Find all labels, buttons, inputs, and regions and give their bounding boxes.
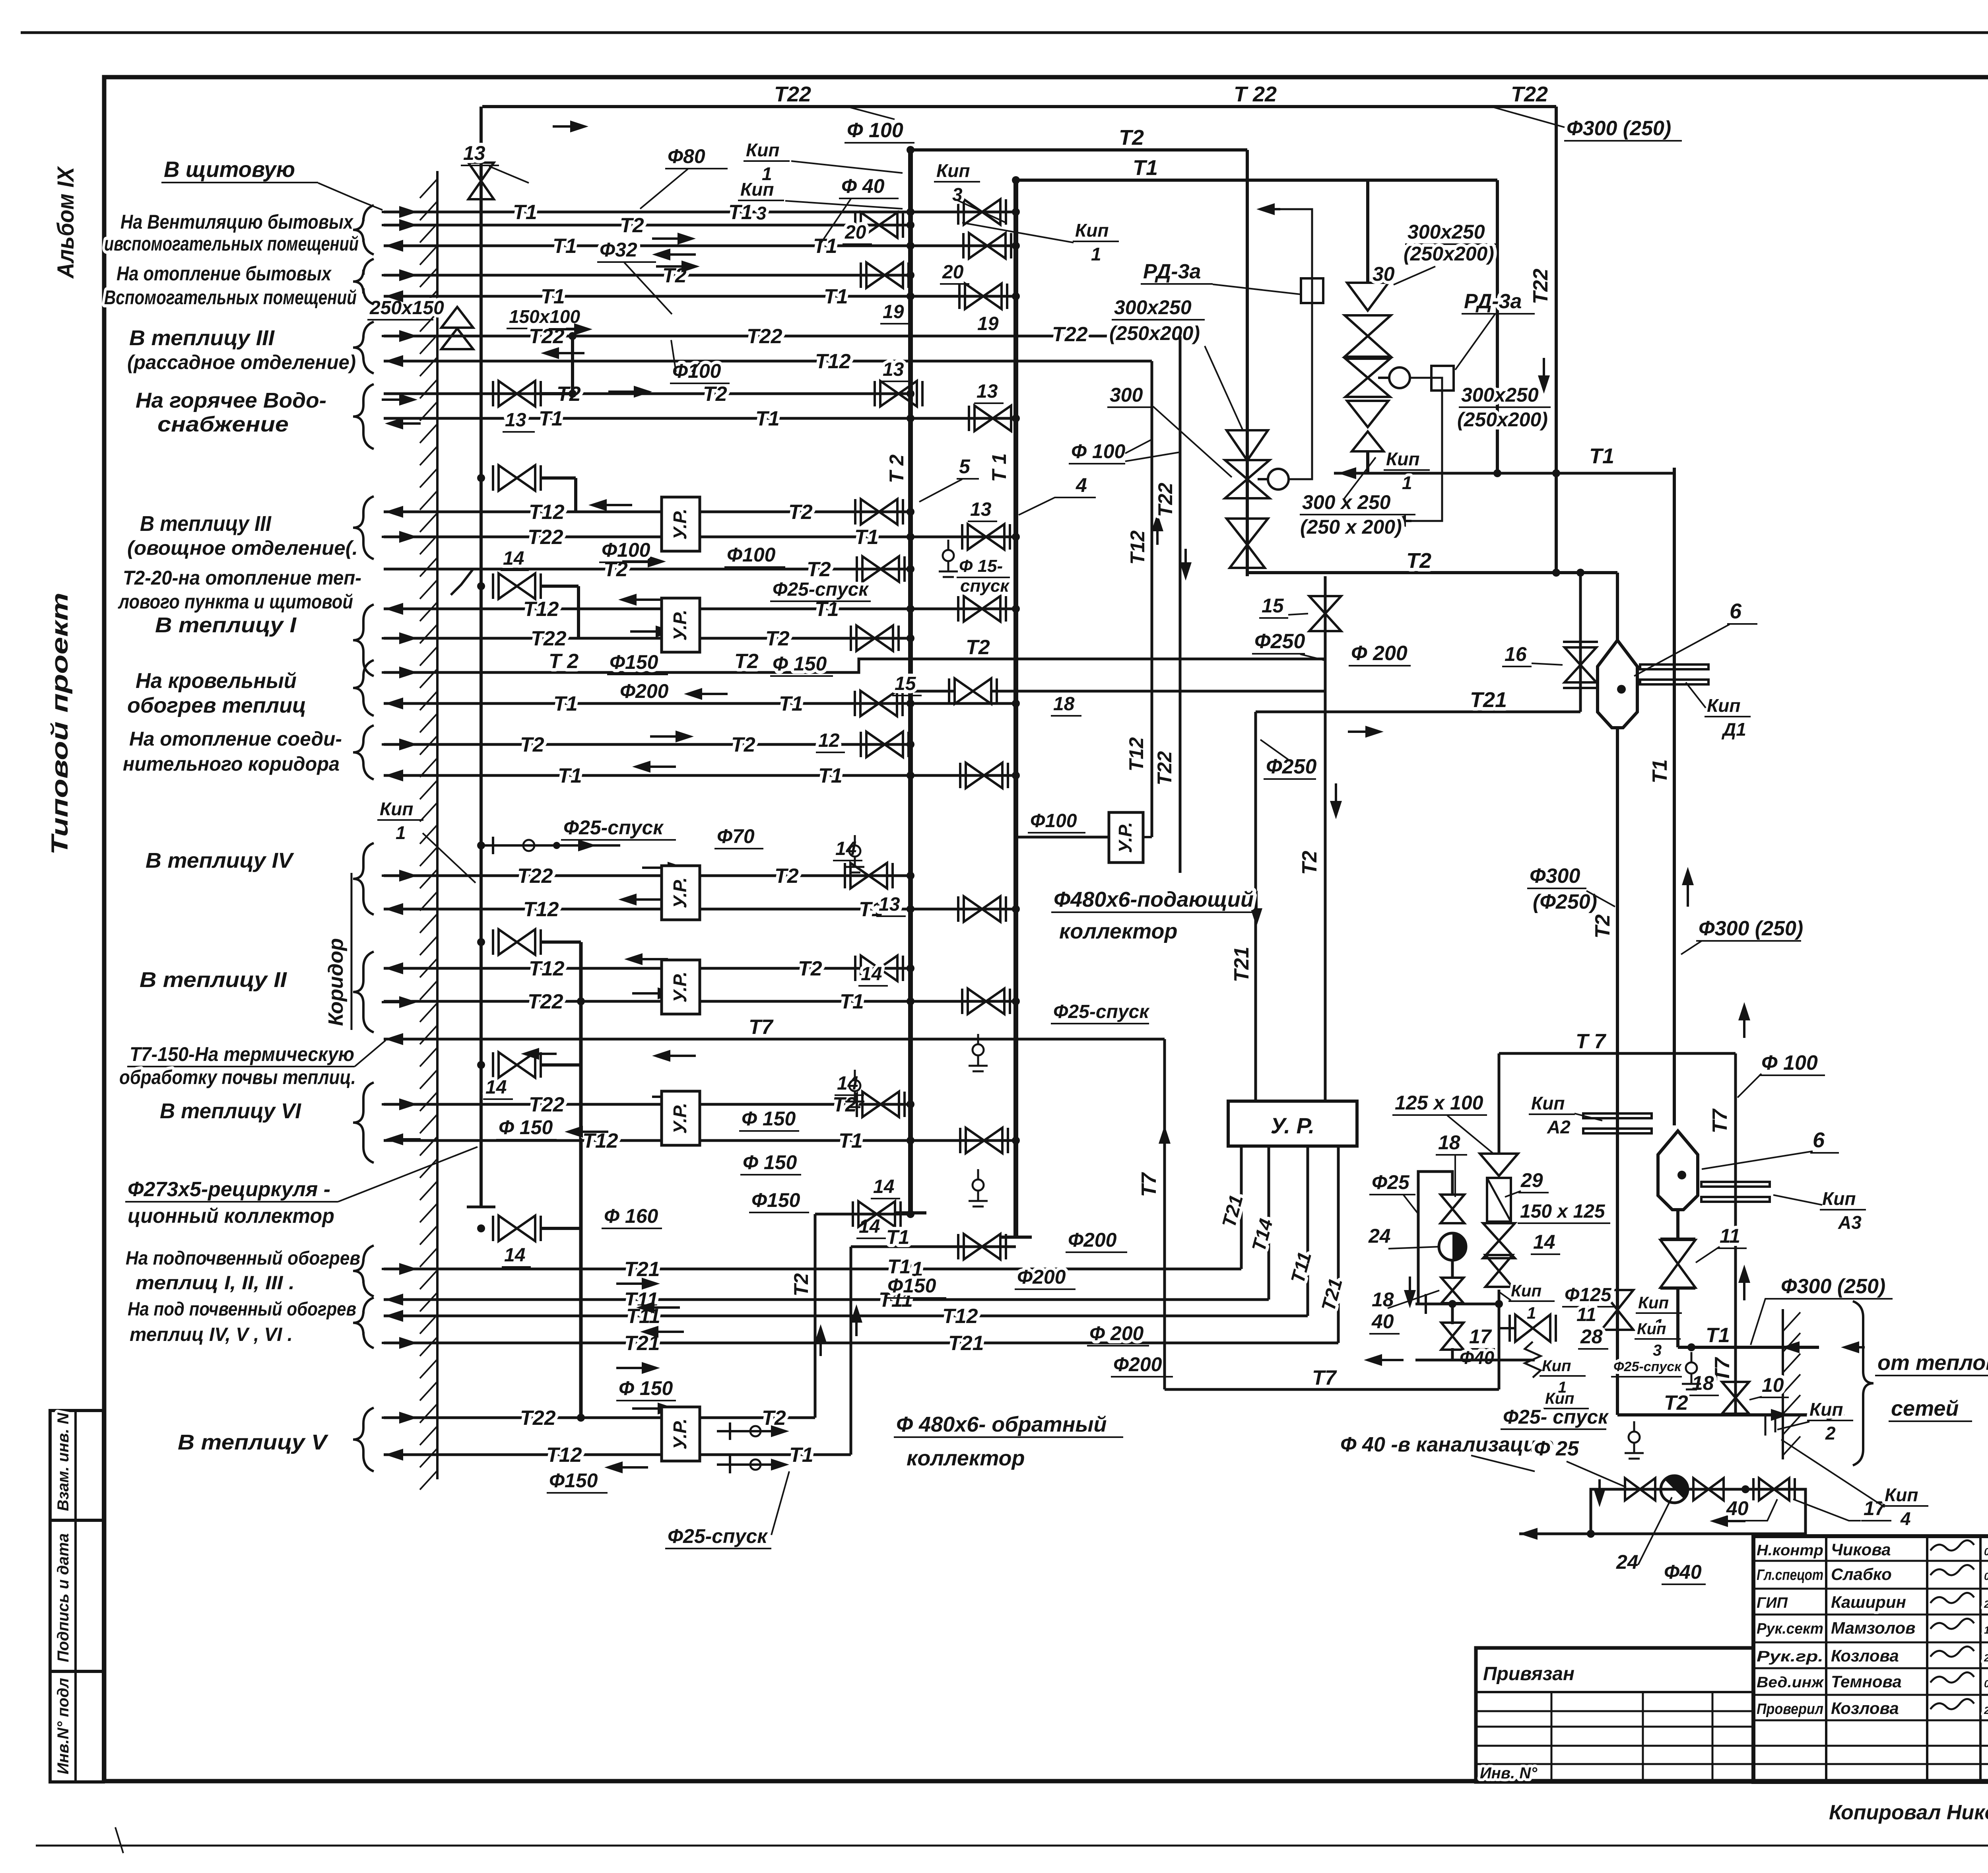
flow arrow out of building	[393, 511, 421, 513]
regulator impulse line left	[1260, 209, 1312, 479]
svg-text:Т12: Т12	[529, 501, 565, 524]
svg-text:Т2: Т2	[620, 214, 644, 237]
svg-text:Ф200: Ф200	[620, 680, 669, 702]
wall pipe riser	[480, 107, 483, 1207]
flow arrow out of building	[393, 1453, 421, 1456]
valve on line y1605	[856, 626, 893, 651]
svg-text:Т1: Т1	[539, 407, 563, 430]
pipe line Т22 y2202	[384, 874, 911, 877]
svg-text:Вед.инж: Вед.инж	[1757, 1674, 1824, 1691]
pipe line Т22 y2518	[384, 1000, 1016, 1003]
svg-text:11: 11	[1576, 1304, 1596, 1325]
svg-text:Т7: Т7	[749, 1016, 774, 1039]
flow arrow up	[1687, 875, 1689, 907]
svg-text:19: 19	[883, 301, 904, 323]
svg-text:13: 13	[879, 894, 900, 915]
svg-text:Т7: Т7	[1138, 1172, 1161, 1197]
flow arrow into building	[382, 536, 410, 538]
device 29	[1487, 1178, 1511, 1222]
svg-text:(рассадное отделение): (рассадное отделение)	[127, 351, 356, 373]
flow arrow into building	[382, 671, 410, 674]
svg-text:Т12: Т12	[529, 957, 565, 980]
Т2 regulator riser	[1246, 150, 1249, 576]
flow arrow into building	[382, 743, 410, 746]
pipe line Т2 y990	[384, 392, 911, 395]
left group braces	[353, 205, 374, 255]
svg-text:Т2: Т2	[775, 865, 799, 888]
Кип Д1 orifice	[1640, 664, 1708, 669]
junction on collector A y2286	[907, 905, 914, 913]
flow arrow	[656, 265, 692, 268]
svg-text:14: 14	[873, 1176, 894, 1197]
svg-text:Т7: Т7	[1708, 1108, 1732, 1133]
pipe line Т22 y845	[384, 335, 1180, 338]
svg-text:Коридор: Коридор	[324, 938, 348, 1026]
svg-text:Т1: Т1	[824, 285, 848, 308]
valve 14 bypass	[499, 573, 535, 599]
valve 18 between collectors	[955, 678, 991, 704]
Т1 regulator riser	[1496, 180, 1499, 473]
flow arrow	[549, 352, 584, 354]
svg-text:Т1: Т1	[755, 407, 780, 430]
svg-text:Т22: Т22	[1052, 323, 1088, 346]
junction on collector A y2435	[907, 964, 914, 972]
svg-text:(овощное отделение(.: (овощное отделение(.	[127, 537, 358, 559]
left Т22 riser Ф160	[579, 942, 583, 1418]
flow arrow	[650, 735, 686, 738]
collector B (Т1) Ф480х6	[1013, 180, 1018, 1237]
flow arrow down	[1409, 1277, 1411, 1300]
svg-text:В теплицу VI: В теплицу VI	[160, 1099, 301, 1123]
svg-text:Т22: Т22	[1154, 483, 1176, 517]
junction on collector A y1872	[907, 740, 914, 748]
svg-text:Т2: Т2	[790, 1273, 812, 1296]
valve 13 on riser	[468, 163, 494, 199]
flow arrow	[630, 630, 666, 633]
pipe line Т2 y566	[384, 224, 911, 227]
svg-text:Кип: Кип	[1511, 1281, 1541, 1300]
flow arrow	[626, 598, 662, 601]
svg-text:Т1: Т1	[886, 1226, 909, 1248]
junction on collector B y2868	[1012, 1137, 1020, 1144]
flow arrow	[660, 1055, 696, 1057]
svg-text:обогрев теплиц: обогрев теплиц	[127, 694, 306, 717]
make-up pump line	[1519, 1489, 1806, 1534]
valve 14	[858, 1201, 895, 1227]
Т2 line y1440	[1246, 573, 1249, 576]
arrow from network	[1849, 1346, 1865, 1348]
svg-text:Кип: Кип	[740, 179, 774, 200]
svg-text:Ф480х6-подающий: Ф480х6-подающий	[1054, 888, 1254, 911]
drain Ф15	[947, 540, 949, 550]
svg-text:Т2: Т2	[1406, 549, 1431, 573]
valve on line y2202	[850, 863, 887, 888]
svg-text:Т2: Т2	[762, 1407, 786, 1430]
svg-text:Ф150: Ф150	[887, 1275, 936, 1297]
svg-text:300 x 250: 300 x 250	[1302, 491, 1391, 513]
pipe line Т1 y745	[384, 295, 1016, 298]
svg-text:Т2: Т2	[1591, 914, 1614, 938]
valve 14 bypass G13	[499, 1216, 535, 1241]
svg-text:Т1: Т1	[818, 764, 843, 787]
valve on line y2777	[862, 1092, 899, 1117]
valve 28	[1515, 1315, 1550, 1342]
junction on collector A y1052	[907, 414, 914, 422]
svg-text:обработку почвы теплиц.: обработку почвы теплиц.	[119, 1066, 356, 1088]
svg-text:Т 1: Т 1	[988, 453, 1010, 482]
svg-text:13: 13	[505, 410, 526, 431]
svg-text:Т 2: Т 2	[885, 455, 908, 483]
svg-text:Ф 100: Ф 100	[1071, 440, 1126, 462]
drain Ф25	[977, 1034, 979, 1044]
flow arrow out of building	[393, 967, 421, 970]
svg-text:Ф25-спуск: Ф25-спуск	[1053, 1001, 1150, 1022]
svg-text:ционный коллектор: ционный коллектор	[128, 1205, 334, 1228]
125x100 / 29 / 150x125 / 14 stack	[1480, 1154, 1518, 1176]
svg-text:Т2: Т2	[1119, 126, 1144, 150]
svg-text:250x150: 250x150	[369, 297, 444, 319]
svg-text:5: 5	[959, 455, 971, 478]
title block signature rows	[1753, 1560, 1988, 1562]
pipe line Т22 y2777	[384, 1103, 911, 1106]
svg-text:29.06.83: 29.06.83	[1984, 1598, 1988, 1610]
valve 16 branch	[1579, 573, 1582, 712]
svg-text:лового пункта и щитовой: лового пункта и щитовой	[118, 591, 353, 613]
svg-text:13: 13	[463, 142, 485, 164]
Т7 route down and across	[1163, 1039, 1166, 1389]
flow arrow out of building	[393, 1038, 421, 1040]
grjazevik 6 upper	[1616, 573, 1619, 640]
svg-text:Кип: Кип	[746, 140, 779, 160]
flow arrow	[1255, 891, 1258, 919]
drains near теплица V УР	[717, 1430, 780, 1432]
svg-text:Т1: Т1	[1706, 1324, 1730, 1347]
drain	[854, 835, 856, 845]
pipe line Т11 y3268	[384, 1298, 1269, 1301]
РД-3а actuator box right	[1431, 366, 1454, 391]
svg-text:1: 1	[1091, 244, 1101, 264]
right wall hatched	[1782, 1309, 1784, 1459]
svg-text:Ф150: Ф150	[549, 1469, 598, 1492]
svg-text:Гл.спецот: Гл.спецот	[1757, 1567, 1823, 1584]
flow arrow into building	[382, 874, 410, 877]
flow arrow out of building	[393, 908, 421, 910]
water make-up loop Ф25	[1418, 1172, 1452, 1304]
svg-text:Т12: Т12	[523, 598, 559, 621]
junction Т22 riser bottom	[577, 1414, 585, 1422]
svg-text:Т22: Т22	[1511, 82, 1548, 106]
flow arrow	[640, 766, 676, 768]
svg-text:05.07.83: 05.07.83	[1984, 1570, 1988, 1582]
junction on collector A y692	[907, 271, 914, 279]
svg-text:Т22: Т22	[531, 627, 567, 650]
svg-text:Копировал Николаева: Копировал Николаева	[1829, 1801, 1988, 1824]
flow arrow out of building	[393, 702, 421, 705]
svg-text:Кип: Кип	[1545, 1390, 1574, 1407]
svg-text:Т1: Т1	[553, 692, 578, 715]
svg-text:13: 13	[883, 359, 904, 380]
svg-text:14: 14	[485, 1077, 507, 1098]
svg-text:Т2: Т2	[765, 627, 790, 650]
svg-text:Кип: Кип	[1542, 1357, 1571, 1375]
svg-text:Т1: Т1	[1589, 444, 1614, 468]
svg-text:Т1: Т1	[854, 526, 879, 549]
svg-text:14: 14	[503, 548, 524, 569]
svg-text:Ф300 (250): Ф300 (250)	[1781, 1275, 1885, 1298]
svg-text:150x100: 150x100	[509, 306, 580, 327]
svg-text:30: 30	[1373, 263, 1395, 285]
mud trap 6 lower	[1658, 1131, 1698, 1210]
arrow to network	[1821, 1414, 1837, 1416]
flow arrow	[660, 253, 696, 256]
junction on collector A y1769	[907, 699, 914, 707]
svg-text:Т1: Т1	[839, 1129, 863, 1152]
svg-text:14: 14	[1533, 1231, 1555, 1253]
svg-text:(Ф250): (Ф250)	[1533, 890, 1597, 913]
svg-text:Ф25-спуск: Ф25-спуск	[1613, 1359, 1682, 1374]
svg-text:Т 2: Т 2	[549, 650, 579, 673]
svg-text:Т12: Т12	[942, 1305, 978, 1328]
svg-text:Кип: Кип	[1822, 1188, 1856, 1209]
КИП taps on Т2 riser	[1616, 1326, 1619, 1415]
svg-text:3: 3	[756, 203, 767, 223]
bottom trim line	[36, 1845, 1988, 1847]
svg-text:15: 15	[895, 673, 916, 694]
pipe line Т2 y692	[384, 274, 911, 277]
svg-text:В теплицу V: В теплицу V	[178, 1430, 328, 1454]
svg-text:На Вентиляцию бытовых: На Вентиляцию бытовых	[120, 211, 354, 233]
svg-text:Козлова: Козлова	[1831, 1699, 1899, 1718]
flow arrow into building	[382, 224, 410, 226]
pump 24	[1661, 1476, 1688, 1503]
Т2-20 takeoff zigzag	[451, 569, 473, 595]
svg-text:Т7: Т7	[1711, 1357, 1734, 1382]
valve on line y533	[964, 199, 1000, 225]
svg-text:Инв.N° подл: Инв.N° подл	[54, 1678, 72, 1774]
flow arrow	[596, 504, 632, 506]
svg-text:Т2: Т2	[788, 501, 813, 524]
svg-text:Ф100: Ф100	[1030, 810, 1077, 832]
flow arrow into building	[382, 1416, 410, 1419]
svg-text:10: 10	[1762, 1374, 1784, 1396]
svg-text:Ф 200: Ф 200	[1089, 1322, 1144, 1345]
svg-text:Т2: Т2	[807, 558, 831, 581]
flow arrow	[632, 958, 668, 960]
svg-text:На под почвенный обогрев: На под почвенный обогрев	[128, 1299, 356, 1320]
svg-text:Ф 150: Ф 150	[499, 1116, 553, 1139]
valve on line y2435	[861, 956, 897, 981]
svg-text:6: 6	[1730, 599, 1742, 623]
svg-text:Кип: Кип	[1531, 1093, 1565, 1113]
svg-text:Т2: Т2	[731, 733, 755, 756]
collector A (Т2/Т22)	[908, 150, 913, 1213]
drain taps	[1691, 1352, 1693, 1362]
svg-text:Т2: Т2	[966, 636, 990, 659]
svg-text:Ф 40: Ф 40	[841, 175, 885, 197]
svg-text:Т1: Т1	[513, 201, 537, 224]
valve bypass G11	[499, 929, 535, 955]
svg-text:Альбом IX: Альбом IX	[53, 166, 79, 279]
junction on collector A y2518	[907, 997, 914, 1005]
svg-text:18: 18	[1438, 1131, 1460, 1154]
title block outline	[1753, 1536, 1988, 1782]
svg-text:ГИП: ГИП	[1757, 1595, 1788, 1611]
junction on collector A y566	[907, 221, 914, 229]
bypass riser G13 valve 14	[541, 1227, 581, 1230]
valve on line y692	[866, 262, 903, 288]
pipe line Т12 y3658	[384, 1453, 851, 1456]
flow arrow	[573, 1131, 608, 1133]
svg-text:(250x200): (250x200)	[1404, 243, 1494, 265]
svg-text:Ф273х5-рециркуля -: Ф273х5-рециркуля -	[128, 1178, 330, 1201]
svg-text:300x250: 300x250	[1461, 384, 1539, 406]
Т21 return line	[1256, 711, 1580, 713]
Т2 riser to УР through valve 15	[1324, 576, 1327, 1101]
svg-text:(250x200): (250x200)	[1109, 322, 1200, 344]
valve 17	[1759, 1478, 1789, 1500]
svg-text:Т22: Т22	[520, 1407, 556, 1430]
pipe line Т12 y1531	[384, 608, 1016, 610]
valve on line y1769	[860, 691, 897, 716]
svg-text:125 х 100: 125 х 100	[1395, 1092, 1483, 1114]
svg-text:Ф 150: Ф 150	[773, 653, 827, 675]
svg-text:Ф150: Ф150	[610, 651, 658, 673]
pipe line Т12 y2868	[384, 1139, 1016, 1142]
stray pen mark bottom left	[115, 1827, 123, 1853]
svg-text:Типовой проект: Типовой проект	[47, 593, 73, 855]
valve on line y1950	[966, 763, 1002, 788]
svg-text:У.Р.: У.Р.	[670, 1418, 690, 1449]
svg-text:Т22: Т22	[529, 1093, 565, 1116]
svg-text:Ф 25: Ф 25	[1534, 1437, 1579, 1460]
svg-text:коллектор: коллектор	[907, 1446, 1025, 1470]
reducer 250x150 at wall	[441, 307, 473, 328]
svg-text:Ф200: Ф200	[1017, 1266, 1066, 1288]
junction on collector A y745	[907, 292, 914, 300]
svg-text:Т12: Т12	[815, 350, 851, 373]
svg-text:На горячее Водо-: На горячее Водо-	[136, 389, 326, 412]
regulator impulse line right	[1392, 378, 1442, 521]
valve on line y2868	[966, 1128, 1002, 1153]
pipe line Т22 y3565	[384, 1416, 815, 1419]
pipe line Т2 y1431	[384, 568, 911, 571]
flow arrow Т21	[1348, 731, 1376, 733]
svg-text:В теплицу III: В теплицу III	[140, 512, 272, 536]
Т1 riser	[1673, 468, 1676, 1125]
svg-text:Т22: Т22	[528, 526, 563, 549]
flow arrow	[612, 1466, 648, 1469]
flow arrow into building	[382, 1103, 410, 1106]
junction on Т22 riser	[577, 997, 585, 1005]
svg-text:Ф 100: Ф 100	[847, 119, 903, 142]
svg-text:У.Р.: У.Р.	[670, 1103, 690, 1134]
svg-text:Т22: Т22	[528, 990, 563, 1013]
svg-text:11: 11	[1720, 1225, 1740, 1247]
bypass riser G12 valve 14	[541, 1063, 581, 1067]
pipe line Т1 y618	[384, 245, 1016, 247]
svg-text:(250x200): (250x200)	[1457, 408, 1548, 431]
valve 14	[964, 1234, 1000, 1259]
flow arrow	[642, 867, 678, 869]
junction on collector A y1431	[907, 565, 914, 573]
valve 14 bypass G12	[499, 1052, 535, 1078]
flow arrow into building	[382, 1268, 410, 1270]
У.Р. box коридор group	[1109, 812, 1143, 863]
sheet top rule	[21, 31, 1988, 34]
pipe line Т22 y1350	[384, 536, 1016, 538]
svg-text:Подпись и дата: Подпись и дата	[54, 1533, 72, 1662]
svg-text:На отопление бытовых: На отопление бытовых	[116, 262, 332, 285]
junction on collector B y1531	[1012, 605, 1020, 613]
junction on collector A y1287	[907, 508, 914, 516]
svg-text:Ф25-спуск: Ф25-спуск	[773, 579, 869, 600]
junction on collector A y1950	[907, 771, 914, 779]
svg-text:Т1: Т1	[553, 235, 577, 258]
drain Ф25	[854, 1070, 856, 1080]
svg-text:Ф 160: Ф 160	[604, 1205, 658, 1227]
svg-text:Ф 40 -в канализацию: Ф 40 -в канализацию	[1340, 1433, 1554, 1456]
flow arrow	[1335, 783, 1337, 811]
svg-text:Ф 200: Ф 200	[1351, 642, 1408, 665]
flow arrow	[626, 898, 662, 901]
junction on collector B y2286	[1012, 905, 1020, 913]
svg-text:Ф300 (250): Ф300 (250)	[1567, 117, 1671, 140]
svg-text:снабжение: снабжение	[157, 412, 289, 436]
junction on collector A y1350	[907, 533, 914, 541]
valve 13 bypass	[499, 381, 535, 406]
svg-text:Ф 15-: Ф 15-	[959, 556, 1003, 576]
bypass riser G5	[574, 478, 577, 512]
svg-text:4: 4	[1900, 1508, 1911, 1529]
svg-text:Слабко: Слабко	[1831, 1565, 1892, 1584]
svg-text:Т21: Т21	[948, 1332, 984, 1355]
junction on collector A y533	[907, 208, 914, 216]
svg-text:40: 40	[1371, 1310, 1394, 1333]
svg-text:РД-3а: РД-3а	[1464, 290, 1522, 313]
svg-text:Инв. N°: Инв. N°	[1480, 1764, 1538, 1782]
svg-text:Ф 480х6- обратный: Ф 480х6- обратный	[896, 1413, 1107, 1436]
flow arrow out of building	[393, 295, 421, 297]
svg-text:Ф200: Ф200	[1068, 1229, 1117, 1251]
flow arrow out of building	[393, 360, 421, 362]
svg-text:Ф80: Ф80	[668, 145, 705, 167]
svg-text:Рук.сект: Рук.сект	[1757, 1620, 1823, 1637]
svg-text:Т1: Т1	[558, 764, 582, 787]
svg-text:Проверил: Проверил	[1757, 1701, 1823, 1718]
valve on line y990	[880, 381, 917, 406]
Ф300(Ф250) riser to bottom	[1616, 728, 1619, 1415]
svg-text:6: 6	[1813, 1128, 1825, 1152]
svg-text:На отопление соеди-: На отопление соеди-	[129, 728, 342, 750]
svg-text:14: 14	[861, 964, 882, 985]
valve on line y2518	[968, 989, 1004, 1014]
svg-text:Т2: Т2	[798, 957, 822, 980]
svg-text:17: 17	[1469, 1325, 1492, 1348]
pipe line Т12 y1287	[384, 511, 911, 513]
valve on line y1350	[968, 524, 1004, 550]
valve on line y566	[861, 212, 897, 238]
flow arrow	[1743, 1010, 1745, 1038]
svg-text:Т2: Т2	[1664, 1391, 1688, 1414]
svg-text:24: 24	[1616, 1551, 1639, 1573]
mud trap 6	[1598, 640, 1637, 728]
svg-text:28: 28	[1580, 1325, 1603, 1348]
Т1 line from heat network	[1678, 1346, 1819, 1349]
drain taps	[1633, 1421, 1635, 1432]
pipe line Т1 y1769	[384, 702, 1016, 705]
pipe line Т1 y1950	[384, 774, 1016, 777]
svg-text:Т21: Т21	[624, 1258, 660, 1281]
